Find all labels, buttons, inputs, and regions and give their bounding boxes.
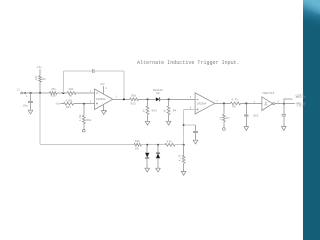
ground (C6) (244, 127, 249, 131)
wire: C5 branch (184, 124, 196, 126)
wire: +5v to R11 (61, 103, 64, 105)
wire: feedback right riser (123, 71, 125, 99)
ground (C7) (282, 127, 287, 131)
svg-text:R4: R4 (173, 110, 177, 113)
svg-text:J1: J1 (17, 89, 21, 92)
resistor R12 (78, 104, 92, 130)
wire: feedback top run (63, 70, 92, 72)
ground (U1 pin4) (101, 105, 107, 115)
svg-text:1k: 1k (142, 109, 146, 113)
wire: bottom rail left (40, 144, 134, 146)
wire: pin5 riser down to rail (183, 109, 185, 144)
theme sidebar (303, 0, 320, 240)
wire: node down to bottom rail (39, 93, 41, 145)
wire: J1 to R2 (25, 92, 50, 94)
ground (C5) (193, 140, 198, 144)
svg-text:R13: R13 (131, 102, 136, 105)
wire: feedback top run right (94, 70, 124, 72)
wire: rail right (175, 144, 184, 146)
ground (R14) (145, 121, 150, 125)
ground (D5) (145, 168, 150, 172)
capacitor C5 (193, 125, 198, 140)
svg-text:1k: 1k (163, 109, 167, 113)
terminal (R7) (223, 128, 226, 131)
capacitor C9 (feedback) (92, 69, 94, 73)
wire: up branch to net label (284, 99, 293, 104)
svg-text:10k: 10k (135, 139, 140, 143)
resistor R2 47k (50, 87, 57, 97)
junction: rail end (183, 144, 185, 146)
svg-text:+5v: +5v (55, 103, 60, 106)
svg-text:R10: R10 (51, 95, 56, 98)
svg-text:1: 1 (26, 95, 28, 98)
svg-text:2k: 2k (218, 116, 222, 120)
junction: input cap node (30, 92, 32, 94)
junction: pin3 node (83, 103, 85, 105)
svg-text:1: 1 (254, 100, 256, 103)
svg-text:110k: 110k (66, 99, 73, 103)
svg-text:.01u: .01u (22, 104, 29, 107)
svg-text:R11: R11 (66, 106, 71, 109)
junction: R14 node (147, 99, 149, 101)
resistor R16 47k (rail) (165, 139, 175, 146)
svg-text:1.5k: 1.5k (78, 114, 82, 121)
wire: U3 out (275, 103, 295, 105)
svg-text:74HCT14: 74HCT14 (262, 92, 275, 95)
svg-text:47k: 47k (51, 87, 56, 91)
wire: R11 to op-amp pin3 (74, 103, 95, 105)
resistor R3 10k (67, 87, 76, 97)
svg-text:4: 4 (106, 110, 108, 113)
diode D5 (145, 145, 149, 169)
svg-text:R12: R12 (86, 119, 91, 122)
wire: R2 to R3 (57, 92, 67, 94)
junction: feedback tap (63, 92, 65, 94)
svg-text:R9: R9 (135, 148, 139, 151)
svg-text:7: 7 (216, 100, 218, 103)
svg-text:MPU-1O: MPU-1O (296, 96, 306, 99)
svg-text:R6: R6 (232, 105, 236, 108)
svg-text:4.7k: 4.7k (177, 154, 181, 161)
resistor R7 (218, 103, 230, 127)
svg-text:.001: .001 (252, 115, 259, 118)
svg-text:-(IC)2: -(IC)2 (296, 104, 305, 108)
wire: R13 to D4 (139, 98, 156, 100)
resistor R1 10k (34, 69, 46, 93)
resistor R11 110k (63, 99, 73, 109)
ground (C1) (28, 110, 33, 114)
resistor R13 560 (130, 95, 139, 106)
wire: U1 out (113, 98, 130, 100)
diode D4 1N4448 (153, 89, 163, 101)
resistor R14 (142, 99, 157, 121)
svg-text:D4: D4 (156, 92, 160, 95)
svg-text:560: 560 (131, 95, 136, 98)
junction: C5 tap (183, 124, 185, 126)
op-amp U1 LM2904 (95, 89, 113, 110)
ground (R17) (181, 172, 186, 176)
capacitor C7 (282, 104, 287, 127)
svg-text:LM2904: LM2904 (96, 98, 106, 101)
svg-text:R1: R1 (42, 78, 46, 81)
svg-text:10k: 10k (68, 87, 73, 91)
capacitor C1 (22, 93, 33, 110)
svg-text:8: 8 (105, 87, 107, 90)
connector J1 (17, 89, 28, 99)
terminal (R12) (83, 129, 86, 132)
wire: R6 to inverter (241, 102, 262, 104)
svg-text:47k: 47k (167, 139, 172, 143)
svg-text:R8: R8 (69, 95, 73, 98)
wire: U2 out (215, 102, 231, 104)
diode D6 (156, 145, 160, 169)
junction: output node (283, 103, 285, 105)
svg-text:Alternate Inductive Trigger In: Alternate Inductive Trigger Input. (137, 60, 240, 66)
wire: R3 to op-amp pin2 (76, 92, 95, 94)
junction: U1 output/feedback (123, 99, 125, 101)
power +5v (U1 pin8) (100, 83, 108, 94)
wire: rail mid (142, 144, 166, 146)
svg-text:R7: R7 (226, 117, 230, 120)
svg-text:6: 6 (190, 96, 192, 99)
junction: R15 node (168, 99, 170, 101)
junction: D5 node (146, 144, 148, 146)
resistor R17 (177, 145, 185, 172)
svg-text:+5v: +5v (100, 83, 105, 86)
junction: pull-up node (39, 92, 41, 94)
wire: U2 pin5 left (184, 108, 196, 110)
junction: D6 node (157, 144, 159, 146)
net label MPU-3O (lower) (296, 102, 307, 107)
junction: U2 output node (223, 103, 225, 105)
ground (D6) (156, 168, 161, 172)
net label MPU-IO (upper) (295, 93, 305, 99)
wire: D4 to U2 pin6 (160, 98, 195, 100)
resistor R6 4.7k (231, 98, 241, 109)
svg-text:10k: 10k (34, 75, 38, 80)
resistor R9 10k (rail) (134, 139, 141, 151)
capacitor C6 .001 (244, 103, 259, 126)
svg-text:2: 2 (277, 100, 279, 103)
ground (R15) (166, 121, 171, 125)
wire: feedback left riser (62, 71, 64, 93)
node dot at J1 pin (25, 92, 26, 93)
svg-text:LM2904: LM2904 (197, 103, 207, 106)
svg-text:4.7k: 4.7k (231, 98, 238, 102)
svg-text:1: 1 (116, 96, 118, 99)
resistor R15 (163, 99, 177, 121)
schmitt inverter U3 74HCT14 (262, 92, 275, 111)
svg-text:+5v: +5v (37, 66, 42, 69)
junction: C6 node (246, 103, 248, 105)
svg-text:R14: R14 (152, 110, 157, 113)
op-amp U2 LM2904 (195, 93, 215, 114)
